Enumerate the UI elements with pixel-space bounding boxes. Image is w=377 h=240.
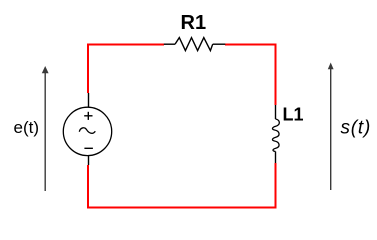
plus sign: [84, 115, 92, 117]
wire: black lead right of resistor: [213, 43, 226, 45]
wire: red loop bottom segment: [88, 163, 276, 208]
sine symbol: [79, 128, 95, 133]
AC source circle: [63, 107, 111, 155]
wire: red loop top-right segment: [225, 45, 276, 106]
svg-text:e(t): e(t): [14, 118, 40, 137]
arrow s(t) head: [328, 63, 334, 70]
wire: black lead below source: [88, 156, 90, 165]
svg-text:R1: R1: [181, 12, 207, 34]
wire: red loop top-left segment: [88, 45, 164, 94]
inductor L1: [272, 119, 279, 152]
wire: black lead above source: [88, 93, 90, 107]
minus sign: [84, 147, 93, 149]
wire: black lead left of resistor: [164, 43, 175, 45]
wire: black lead above inductor: [275, 105, 277, 119]
svg-text:L1: L1: [283, 104, 304, 124]
resistor R1: [175, 38, 213, 51]
arrow s(t) shaft: [330, 69, 332, 191]
arrow e(t) shaft: [44, 72, 46, 191]
svg-text:s(t): s(t): [341, 118, 372, 139]
wire: black lead below inductor: [275, 152, 277, 164]
arrow e(t) head: [42, 66, 49, 73]
